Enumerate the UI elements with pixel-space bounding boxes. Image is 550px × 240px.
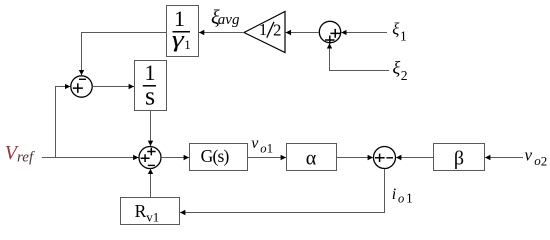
svg-text:v1: v1 bbox=[146, 210, 159, 225]
svg-text:2: 2 bbox=[273, 21, 281, 40]
svg-text:o: o bbox=[398, 191, 404, 205]
svg-text:s: s bbox=[145, 81, 155, 110]
svg-text:1: 1 bbox=[267, 141, 273, 155]
label Vref bbox=[5, 142, 35, 165]
svg-text:2: 2 bbox=[401, 68, 408, 83]
svg-text:ref: ref bbox=[17, 150, 35, 166]
wire Vref branch up to S1 bbox=[56, 87, 71, 158]
svg-text:1: 1 bbox=[406, 191, 413, 206]
svg-text:i: i bbox=[392, 186, 396, 203]
svg-text:1: 1 bbox=[184, 38, 190, 52]
svg-text:α: α bbox=[306, 148, 317, 170]
wire S3 down and left to Rv1, node io1 bbox=[180, 169, 385, 213]
label xi2 bbox=[393, 58, 408, 83]
svg-text:1: 1 bbox=[400, 28, 407, 43]
wire G(s) to alpha, node vo1 bbox=[248, 157, 287, 159]
svg-text:γ: γ bbox=[172, 27, 185, 52]
svg-text:o: o bbox=[260, 141, 266, 155]
wire Rv1 up to S2 bottom bbox=[150, 169, 152, 198]
summing junction S1 (left) bbox=[71, 76, 92, 97]
summing junction S3 (right) bbox=[374, 147, 396, 169]
wire S2 to G(s) bbox=[161, 157, 189, 159]
wire triangle to 1/gamma1, node xi_avg bbox=[199, 32, 244, 34]
svg-text:G(s): G(s) bbox=[201, 146, 230, 166]
gain triangle 1/2 bbox=[244, 12, 285, 53]
svg-text:1: 1 bbox=[259, 20, 267, 39]
wire Vref to S2 bbox=[42, 157, 139, 159]
block beta bbox=[434, 144, 485, 171]
svg-text:ξ: ξ bbox=[393, 58, 401, 78]
summing junction S4 (top right) bbox=[319, 21, 340, 43]
wire vo2 to beta bbox=[485, 157, 523, 159]
wire xi1 to S4 bbox=[341, 32, 387, 34]
block 1/s bbox=[135, 60, 167, 111]
svg-text:v: v bbox=[525, 146, 533, 165]
wire xi2 to S4 bottom bbox=[330, 43, 390, 70]
label vo1 bbox=[251, 135, 273, 156]
block alpha bbox=[287, 144, 337, 171]
wire S4 to triangle bbox=[286, 32, 319, 34]
svg-text:2: 2 bbox=[541, 153, 548, 168]
wire 1/s to S2 top bbox=[150, 111, 152, 147]
svg-text:β: β bbox=[454, 148, 464, 170]
label xi_avg bbox=[211, 6, 240, 28]
wire S1 to 1/s bbox=[92, 86, 134, 88]
svg-text:R: R bbox=[135, 201, 147, 221]
wire alpha to S3 bbox=[337, 157, 374, 159]
label xi1 bbox=[392, 20, 406, 44]
block G(s) bbox=[190, 144, 248, 171]
svg-text:v: v bbox=[251, 135, 259, 152]
label vo2 bbox=[525, 146, 548, 169]
block Rv1 bbox=[121, 198, 180, 225]
wire 1/gamma1 output to S1 top bbox=[82, 33, 167, 76]
summing junction S2 (main) bbox=[139, 147, 161, 169]
label io1 bbox=[392, 186, 413, 206]
block 1/gamma1 bbox=[167, 6, 199, 57]
svg-text:avg: avg bbox=[218, 12, 240, 28]
wire beta to S3 bbox=[396, 157, 434, 159]
